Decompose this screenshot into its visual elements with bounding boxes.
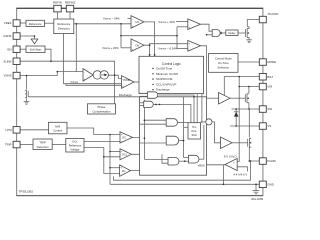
logic box [140,97,207,175]
wire VSNS drop to discharge FET [26,76,28,90]
svg-text:Control: Control [53,129,62,133]
body diode SW-VS [234,112,239,117]
arrow into control logic A [149,54,151,56]
comparator 5V UVLO (points left) [225,158,237,170]
svg-text:Detection: Detection [37,145,49,149]
gate C [140,119,189,127]
block Soft-Start [26,46,45,53]
gm current source pair [93,71,108,79]
wire OCL comparator output [132,153,163,155]
svg-text:SLEW: SLEW [3,59,11,63]
wire TRIP to detection [20,144,33,146]
svg-text:UDG-11099: UDG-11099 [251,199,264,201]
pin REFIN2 [65,0,76,19]
wire VS row [230,125,259,127]
pin SLEW [3,58,20,65]
svg-text:M/S: M/S [55,124,60,128]
ground at discharge FET [24,101,30,104]
comparator PG2 [188,41,201,52]
svg-text:Detection: Detection [58,27,70,31]
wire to PG2 lower input [177,48,188,50]
LS FET [248,138,252,148]
svg-text:-: - [122,78,123,81]
wire Delay to PGOOD FET gate [238,32,246,34]
wire SW row [232,108,260,110]
wire circle drop vertical [203,125,205,159]
pin GSNS [3,33,20,40]
gate B [140,101,191,123]
wire LPM to MS control [20,129,48,131]
wire EN to Soft-Start [20,48,26,50]
wire MODE [238,61,259,63]
svg-text:Selection: Selection [218,66,230,70]
wire OCL reference out1 [84,141,120,143]
wire PG2 output down right side [201,46,207,97]
wire long internal vertical [184,97,189,158]
pin BST [259,74,273,81]
svg-text:Reference: Reference [57,22,70,26]
svg-text:Control Logic: Control Logic [162,62,181,66]
wire gateX output to Ton [159,95,195,123]
svg-text:BST: BST [267,75,273,79]
svg-text:PGND: PGND [267,159,275,163]
svg-text:LPM: LPM [6,128,13,132]
wire VBOK from UVLO comp [207,164,225,166]
pin SW [259,106,272,113]
wire OCL minus branch [104,156,120,158]
wire junction dots [26,23,257,185]
svg-text:-: - [84,71,85,74]
pin VREF [4,20,20,27]
wire to PG1 lower input [177,26,188,28]
comparator ZC [120,165,131,177]
wire VREFIN drop to error amp [75,24,77,72]
discharge FET [25,90,28,98]
svg-text:Minimum On/Off: Minimum On/Off [156,72,178,76]
bottom rail overlay [17,195,263,197]
pin PGOOD [259,12,278,23]
wire vertical CL to Ton [196,94,198,123]
wire vertical CL to Ton right corner [201,94,203,123]
svg-text:Soft-Start: Soft-Start [30,48,42,52]
wire HS FET source to SW [248,103,250,109]
svg-text:Ton: Ton [192,125,197,129]
svg-text:One-: One- [191,129,197,133]
top rail overlay [17,7,263,9]
svg-text:Compensation: Compensation [92,110,110,114]
wire GND rail [110,183,259,185]
pin GND [259,181,274,188]
svg-text:EN: EN [7,47,11,51]
svg-text:VREF: VREF [4,21,12,25]
wire OC comparator output [133,136,167,138]
svg-text:Control Mode: Control Mode [215,57,232,61]
wire NAND to Delay [222,32,226,34]
comparator PG1 [188,19,201,30]
wire BST [224,77,259,95]
comparator OC [120,132,133,143]
IC outline frame [17,8,263,195]
wire current sense bus x110 [109,135,111,185]
svg-text:OCL: OCL [122,154,128,157]
svg-text:Shot: Shot [192,133,198,137]
wire LS FET gate [232,142,248,144]
wire x177 bus [176,27,178,49]
svg-text:VIN: VIN [267,85,272,89]
pin REFIN [53,0,62,19]
gate F [189,155,204,163]
wire PWM output to control logic [134,81,139,83]
wire GSNS [20,36,34,39]
pin LPM [6,127,21,134]
svg-text:GND: GND [267,183,273,187]
wire ramp line lower [66,84,122,86]
svg-text:-: - [132,41,133,44]
wire UV output to control logic arrow [144,22,155,55]
pin MODE [259,59,276,66]
HS FET [245,93,249,103]
PGOOD FET [246,27,250,40]
svg-text:VSNS: VSNS [4,74,12,78]
svg-text:Delay: Delay [228,31,236,35]
wire loop below logic box [114,161,251,180]
internal input bus [143,100,145,160]
svg-text:On-Time: On-Time [218,61,229,65]
svg-text:VS: VS [267,124,271,128]
block OCL Reference Voltage [66,138,84,152]
driver circle [201,119,221,143]
wire VREF to Reference [20,22,26,24]
pin EN [7,46,20,53]
svg-text:ZC: ZC [122,169,126,173]
wire VIN [239,86,259,88]
svg-text:OV: OV [135,44,139,48]
ground GSNS analog triangle [31,39,38,44]
wire Reference to Reference Detection [45,22,54,24]
comparator PWM [122,76,135,89]
svg-text:Reference: Reference [29,22,42,26]
wire ZC plus input [110,167,120,169]
svg-text:SKIP/FCCM: SKIP/FCCM [156,77,173,81]
svg-text:OCL: OCL [72,139,78,143]
pin TRIP [5,141,20,148]
driver T1 [219,93,231,105]
svg-text:On/Off Time: On/Off Time [156,67,172,71]
wire discharge FET source to ground [26,99,28,102]
wire OCL plus input [110,151,120,153]
wire RefDet drop to ramp line [62,34,64,84]
wire PGOOD FET drain to PGOOD pin [247,20,259,27]
comparator OV [131,39,144,52]
wire HS driver input [207,97,219,99]
wire PG1 output to NAND [201,24,213,31]
wire mid threshold row y35.7 [121,35,177,37]
wire HS FET gate [230,97,245,99]
arrow VBOK [205,164,207,166]
wire MS control to OC comparator [67,128,120,135]
block MS Control [49,122,68,134]
svg-text:REFIN2: REFIN2 [65,0,76,4]
svg-text:UV: UV [135,20,139,24]
wire stub into Ton left [184,126,188,128]
block Control Mode On-Time Selection [209,54,238,73]
comparator OCL [120,149,132,160]
pin VSNS [4,72,20,79]
wire label stub OV lower input [121,47,131,49]
svg-text:Reference: Reference [69,143,82,147]
pin PGND [259,158,275,165]
ground at GND pin [253,184,260,194]
svg-text:GSNS: GSNS [3,34,11,38]
gate X [140,92,158,99]
pin VIN [259,83,272,90]
wire ramp line upper [63,83,121,85]
wire body diode branch [235,109,237,126]
comparator UV [131,16,144,29]
gate E [144,154,188,165]
svg-text:-: - [189,21,190,24]
wire LS FET drain from SW [248,109,250,137]
svg-text:MODE: MODE [267,60,276,64]
wire label stub UV upper input [128,18,132,20]
svg-text:Discharge: Discharge [156,88,170,92]
block Delay [226,30,238,36]
svg-text:4.4 V/4.0 V: 4.4 V/4.0 V [233,172,247,176]
pin VS [259,123,271,130]
svg-text:PWM: PWM [123,78,131,82]
wire VIN sense drop to UVLO comparator [237,77,239,162]
wire TRIP detection to OCL reference [52,144,66,146]
wire ZC comparator output [131,170,159,172]
wire VSNS row [20,72,83,76]
svg-text:-: - [121,174,122,177]
svg-text:Voltage: Voltage [70,147,79,151]
svg-text:TPS51362: TPS51362 [19,189,34,193]
svg-text:OCL/OVP/UVP: OCL/OVP/UVP [156,82,176,86]
error amp [83,69,93,82]
svg-text:5-V UVLO: 5-V UVLO [224,154,238,158]
gate D [140,136,184,145]
wire OV output to control logic arrow [144,45,150,54]
wire Soft-Start output to SLEW net [45,49,51,61]
wire x121 threshold bus [120,24,122,48]
wire SLEW row to comp node [20,61,115,104]
svg-text:REFIN: REFIN [53,0,62,4]
svg-text:OC: OC [122,136,126,140]
control logic box [139,56,204,93]
driver T2 [221,137,233,149]
wire OV output branch to PG2 [150,44,188,46]
Ton one-shot box [188,123,201,139]
svg-text:VBOK: VBOK [198,164,205,168]
svg-text:TRIP: TRIP [5,143,12,147]
block Reference [26,20,45,26]
NAND gate PGOOD [212,30,222,37]
wire NAND second input [207,34,213,36]
svg-text:PGOOD: PGOOD [268,12,279,16]
block Reference Detection [54,19,74,34]
wire discharge signal [28,96,139,98]
wire UVLO output tie to gnd rail [223,165,225,185]
svg-text:SW: SW [267,107,272,111]
ground at PGOOD FET [246,40,252,43]
wire gm output to PWM comparator [108,75,121,78]
svg-text:-: - [188,48,189,51]
block Phase Compensation [88,104,116,114]
wire UVLO minus input [237,167,247,172]
block TRIP Detection [33,139,52,149]
wire HS FET drain [248,87,250,94]
svg-text:-: - [132,18,133,21]
wire label stub PG1 upper input [176,21,188,23]
svg-text:Discharge: Discharge [119,93,132,97]
wire VREFIN rail to UV comparator [74,23,131,25]
wire LS FET source to PGND [249,147,259,161]
arrow into control logic B [154,54,156,56]
wire OCL reference out2 [84,148,120,174]
